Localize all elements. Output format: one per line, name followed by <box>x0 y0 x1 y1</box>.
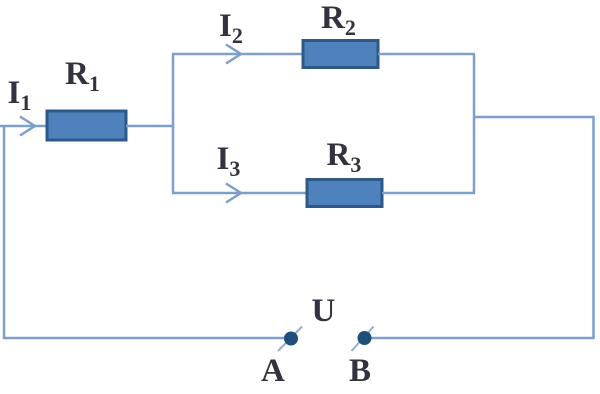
label R1 <box>65 58 100 95</box>
wire: top branch right segment <box>378 53 475 56</box>
label R3 <box>327 139 362 176</box>
label I2 <box>219 10 243 47</box>
wire: bottom branch left segment <box>172 192 307 195</box>
label A <box>261 355 285 388</box>
arrow I3 head <box>226 184 241 203</box>
wire: mid connector to right side <box>474 116 594 119</box>
label U <box>312 295 336 328</box>
arrow I1 head <box>20 117 35 136</box>
wire: right vertical <box>592 116 595 339</box>
label I1 <box>8 77 32 114</box>
terminal A dot <box>284 332 298 346</box>
label R2 <box>321 2 356 39</box>
terminal B slash <box>352 327 374 352</box>
wire: bottom left segment to terminal A <box>3 337 287 340</box>
wire: main left segment into R1 <box>0 125 47 128</box>
wire: top branch left segment <box>172 53 303 56</box>
wire: bottom branch right segment <box>382 192 475 195</box>
wire: bottom right segment to terminal B <box>369 337 594 340</box>
label I3 <box>217 143 241 180</box>
terminal B dot <box>358 331 372 345</box>
resistor R2 <box>303 41 378 68</box>
wire: left vertical of parallel section <box>172 54 175 193</box>
label B <box>349 355 371 388</box>
resistor R1 <box>47 111 126 140</box>
wire: right vertical of parallel section <box>473 54 476 193</box>
wire: R1 to split node <box>126 125 173 128</box>
terminal A slash <box>278 327 302 352</box>
wire: left vertical <box>3 126 6 339</box>
arrow I2 head <box>226 45 241 64</box>
resistor R3 <box>307 180 382 207</box>
